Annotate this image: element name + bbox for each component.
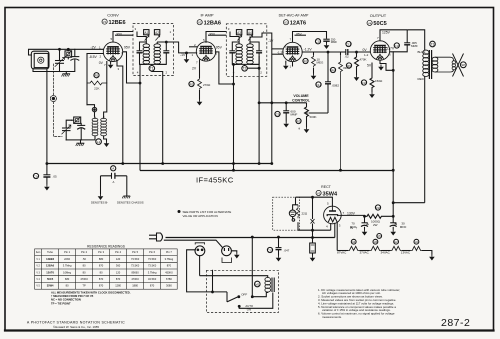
svg-text:13VAC: 13VAC	[401, 251, 411, 255]
svg-text:87VAC: 87VAC	[337, 251, 347, 255]
resistor R1 22K	[87, 81, 107, 85]
tube V2 12BA6 envelope	[196, 42, 215, 61]
svg-text:1: 1	[192, 53, 194, 57]
column lines	[41, 249, 43, 289]
svg-text:7: 7	[290, 38, 292, 42]
svg-text:1880: 1880	[132, 284, 138, 288]
svg-text:T2: T2	[243, 67, 247, 71]
IF label	[196, 176, 234, 185]
heater pins down	[330, 223, 332, 230]
grommet circle on feed wire	[87, 105, 95, 108]
svg-text:Pin 2: Pin 2	[81, 250, 87, 254]
AVC / B- bus	[47, 163, 272, 165]
svg-text:3V: 3V	[350, 226, 354, 230]
svg-text:Item: Item	[36, 251, 41, 254]
cord lower wire to interlock	[164, 240, 223, 247]
svg-text:73.5K0: 73.5K0	[148, 264, 157, 268]
svg-text:MMF: MMF	[411, 44, 418, 48]
svg-text:V1: V1	[103, 20, 107, 24]
svg-text:7: 7	[377, 36, 379, 40]
svg-text:73.5K0: 73.5K0	[148, 257, 157, 261]
svg-text:C10: C10	[315, 40, 321, 44]
tube V5 35W4 envelope	[324, 206, 342, 224]
svg-text:3: 3	[339, 224, 341, 228]
heater V1	[411, 246, 422, 250]
svg-text:H4: H4	[352, 240, 356, 244]
svg-text:3: 3	[118, 67, 120, 71]
row lines	[35, 255, 178, 257]
svg-text:10Meg: 10Meg	[63, 270, 71, 274]
switch SW1 arm	[227, 297, 238, 302]
clock dashed box	[206, 270, 278, 312]
svg-text:H1: H1	[415, 240, 419, 244]
resistor R9 470K	[355, 52, 359, 75]
svg-text:RECT: RECT	[321, 185, 332, 189]
svg-text:θ: θ	[299, 127, 301, 131]
svg-text:125V: 125V	[382, 31, 391, 35]
speaker cone	[453, 54, 464, 77]
svg-text:-1V: -1V	[268, 39, 274, 43]
svg-text:2W: 2W	[373, 223, 378, 227]
svg-text:ALL MEASUREMENTS TAKEN WITH CL: ALL MEASUREMENTS TAKEN WITH CLOCK DISCON…	[51, 290, 131, 294]
svg-text:2: 2	[194, 43, 196, 47]
clock coil top wire to socket	[200, 276, 268, 278]
svg-text:120: 120	[116, 257, 121, 261]
svg-text:RED: RED	[418, 77, 425, 81]
T2 dashed box	[226, 24, 266, 77]
svg-text:22K0: 22K0	[64, 257, 71, 261]
svg-text:C15: C15	[267, 248, 273, 252]
svg-text:MEG: MEG	[317, 61, 325, 65]
volume pot R3 500K	[305, 103, 309, 125]
svg-text:R7: R7	[304, 59, 308, 63]
svg-text:5: 5	[327, 202, 329, 206]
svg-text:R10: R10	[361, 81, 367, 85]
svg-text:MFD: MFD	[400, 225, 407, 229]
svg-text:B: B	[395, 222, 398, 226]
svg-text:CONV: CONV	[107, 13, 119, 18]
T2 primary top wire entering box	[230, 32, 239, 43]
svg-text:A: A	[112, 167, 114, 171]
svg-text:RESISTANCE READINGS: RESISTANCE READINGS	[87, 244, 125, 248]
svg-text:V5: V5	[317, 191, 321, 195]
capacitor C4 osc padder	[80, 123, 82, 125]
coupling capacitor C11	[346, 41, 351, 46]
svg-text:.047: .047	[284, 249, 290, 253]
INPUT SECTION	[29, 48, 110, 164]
svg-text:IF AMP: IF AMP	[200, 13, 213, 18]
svg-text:A1: A1	[144, 31, 148, 35]
label RECT for tube V5	[316, 185, 338, 197]
legend capacitor A	[111, 166, 116, 171]
label DET-AVC-AF AMP for tube V3	[279, 14, 309, 27]
svg-text:V3: V3	[284, 21, 288, 25]
PARTS NOTE	[178, 210, 232, 218]
speaker circle designator SP	[460, 62, 466, 68]
svg-text:5: 5	[111, 37, 113, 41]
svg-text:L2: L2	[97, 140, 101, 144]
svg-text:Pin 4: Pin 4	[115, 250, 121, 254]
svg-text:22K: 22K	[94, 87, 99, 91]
ground chassis below antenna caps	[62, 74, 70, 76]
svg-text:T3: T3	[431, 42, 435, 46]
svg-text:35W4: 35W4	[323, 191, 339, 197]
svg-text:870: 870	[99, 277, 104, 281]
socket wires into clock box	[187, 250, 227, 292]
variable capacitor C1A	[59, 49, 61, 60]
capacitor C10 plate bypass	[315, 39, 320, 44]
svg-text:73.5K0: 73.5K0	[131, 257, 140, 261]
heater hump below tube	[371, 63, 373, 77]
B- arrow below tube cathode	[378, 65, 384, 71]
trimmer A2	[154, 30, 159, 35]
svg-text:3080: 3080	[166, 284, 172, 288]
interlock male plug	[222, 246, 232, 256]
svg-text:500K: 500K	[310, 115, 317, 119]
svg-text:80: 80	[83, 264, 86, 268]
T2 bottom leads	[232, 63, 239, 170]
svg-text:M1: M1	[255, 282, 259, 286]
resistor R8 330K	[339, 55, 343, 170]
svg-text:7: 7	[196, 61, 198, 65]
wires from lamp box to AC line	[297, 222, 299, 230]
svg-text:TP = TIE POINT: TP = TIE POINT	[51, 302, 71, 306]
T2 secondary top wire to V3 grid	[250, 33, 284, 49]
svg-text:12BA6: 12BA6	[46, 264, 55, 268]
svg-text:80: 80	[100, 270, 103, 274]
socket-to-switch wire	[212, 270, 214, 292]
svg-text:Pin 7: Pin 7	[166, 250, 172, 254]
CLOCK SWITCH BOX	[200, 238, 279, 313]
capacitor C15 line bypass	[267, 247, 272, 252]
T3 core	[428, 50, 430, 79]
svg-text:3: 3	[135, 27, 137, 31]
fixed capacitor C2	[74, 49, 76, 56]
heater string end to ground	[422, 251, 432, 255]
svg-text:OFF: OFF	[241, 293, 247, 297]
PLUG AND INTERLOCK	[149, 233, 240, 293]
trimmer A1	[144, 30, 149, 35]
off contact wire to coil bottom	[252, 292, 267, 297]
node at tuning cap C1A	[59, 48, 61, 50]
surge resistor block M1	[310, 243, 316, 253]
svg-text:Tube: Tube	[47, 250, 53, 254]
heater string wire	[337, 250, 348, 252]
capacitor C12	[316, 82, 321, 87]
svg-text:12BA6: 12BA6	[204, 21, 221, 27]
svg-text:470K0: 470K0	[131, 277, 139, 281]
svg-text:7: 7	[104, 63, 106, 67]
auto contact wire	[239, 293, 273, 309]
POWER SECTION	[166, 196, 435, 261]
svg-text:3: 3	[228, 27, 230, 31]
svg-text:85V: 85V	[296, 32, 302, 36]
svg-text:V2: V2	[198, 21, 202, 25]
svg-text:5V: 5V	[367, 64, 372, 68]
svg-text:TP: TP	[82, 284, 86, 288]
AC line from plug	[166, 237, 335, 239]
heater V4	[348, 246, 359, 250]
svg-text:A: A	[366, 222, 369, 226]
svg-text:12AT6: 12AT6	[290, 21, 306, 27]
T3 circle designator	[430, 41, 436, 47]
svg-text:2: 2	[166, 71, 168, 75]
svg-text:.0082: .0082	[332, 84, 340, 88]
grid return wires	[87, 53, 103, 55]
svg-text:6780: 6780	[166, 277, 172, 281]
svg-text:MMF: MMF	[291, 113, 298, 117]
svg-text:V 5: V 5	[36, 286, 40, 288]
tube V1 12BE6 envelope	[103, 42, 122, 61]
svg-text:measurements.: measurements.	[322, 315, 342, 319]
electrolytic C16B 30MFD	[392, 216, 394, 222]
svg-text:R9: R9	[347, 64, 351, 68]
resistor 22 ohm parallel with lamp	[296, 205, 299, 218]
LABELS-TOP	[102, 13, 387, 198]
oscillator variable capacitor C1C	[63, 127, 71, 129]
svg-text:12BE6: 12BE6	[109, 20, 126, 26]
svg-text:.05: .05	[53, 175, 58, 179]
link to T3 bottom	[393, 202, 425, 204]
svg-text:360: 360	[116, 264, 121, 268]
FOOTER	[27, 321, 125, 329]
svg-text:A4: A4	[248, 31, 252, 35]
wires top	[259, 102, 306, 104]
svg-text:150Ω: 150Ω	[375, 79, 383, 83]
svg-text:DENOTES B-: DENOTES B-	[91, 201, 108, 205]
svg-text:95V: 95V	[210, 32, 216, 36]
RESISTANCE TABLE	[35, 244, 178, 289]
svg-text:450K0: 450K0	[165, 270, 173, 274]
trimmer A4	[247, 30, 252, 35]
svg-text:37VAC: 37VAC	[360, 251, 370, 255]
node dots on AVC bus	[122, 163, 124, 165]
svg-text:MMF: MMF	[331, 40, 338, 44]
svg-text:R8: R8	[331, 68, 335, 72]
svg-text:-8.5V: -8.5V	[89, 55, 98, 59]
svg-text:V 1: V 1	[36, 259, 40, 261]
svg-text:1-2: 1-2	[364, 53, 369, 57]
V2 surroundings	[180, 32, 234, 106]
svg-text:0V: 0V	[99, 61, 104, 65]
svg-text:.50: .50	[82, 257, 86, 261]
svg-text:C14: C14	[33, 174, 39, 178]
T2 circle designator	[242, 66, 248, 72]
svg-text:680: 680	[65, 277, 70, 281]
resistor R7 10 MEG	[312, 55, 316, 68]
capacitor C13 tone	[394, 43, 399, 48]
T1 dashed box	[133, 24, 174, 76]
svg-text:3.7Meg: 3.7Meg	[63, 264, 72, 268]
T1 secondary winding	[154, 44, 161, 64]
svg-text:12BE6: 12BE6	[46, 257, 54, 261]
switch feed from AC line	[251, 238, 253, 297]
V1 surroundings	[89, 32, 141, 164]
IF TRANSFORMER T2	[226, 24, 283, 171]
svg-text:3.7Meg: 3.7Meg	[165, 257, 174, 261]
svg-text:95V: 95V	[124, 46, 131, 50]
heater V3	[370, 246, 381, 250]
svg-text:Pin 5: Pin 5	[132, 250, 138, 254]
svg-text:2: 2	[100, 55, 102, 59]
T3 primary winding	[423, 50, 429, 76]
svg-text:H2: H2	[394, 240, 398, 244]
PAGE NUMBER	[441, 317, 470, 329]
V4 surroundings	[341, 30, 418, 98]
svg-text:870: 870	[116, 277, 121, 281]
svg-text:C5: C5	[378, 234, 382, 238]
voice coil	[452, 61, 455, 64]
T2 secondary winding	[247, 44, 254, 64]
tube V3 12AT6 envelope	[283, 42, 302, 61]
svg-text:†: †	[356, 226, 358, 230]
interlock to chassis ground	[231, 251, 236, 253]
svg-text:A2: A2	[155, 31, 159, 35]
svg-text:.02: .02	[345, 55, 350, 59]
svg-text:50C5: 50C5	[47, 277, 54, 281]
T2 primary cap	[232, 42, 239, 64]
svg-text:120: 120	[116, 270, 121, 274]
svg-text:870: 870	[99, 264, 104, 268]
svg-text:Pin 1: Pin 1	[64, 250, 70, 254]
svg-text:43.5K0: 43.5K0	[148, 277, 157, 281]
svg-text:1: 1	[290, 65, 292, 69]
screen wire right of V1	[123, 52, 140, 83]
gang dot symbol	[50, 96, 56, 102]
B+ vertical to screen/filter	[392, 70, 394, 216]
svg-text:34VAC: 34VAC	[381, 251, 391, 255]
svg-text:R1: R1	[95, 74, 99, 78]
svg-text:80: 80	[66, 284, 69, 288]
svg-text:1: 1	[170, 30, 172, 34]
svg-text:R11: R11	[375, 206, 381, 210]
svg-text:VALUE OR APPLICATION: VALUE OR APPLICATION	[183, 214, 218, 218]
svg-text:A: A	[113, 180, 115, 184]
bottom return wire	[66, 139, 80, 141]
svg-text:DET-AVC-AF AMP: DET-AVC-AF AMP	[279, 14, 309, 18]
svg-text:©Howard W. Sams & Co., Inc.: ©Howard W. Sams & Co., Inc. 1955	[53, 325, 99, 329]
svg-text:7: 7	[343, 211, 345, 215]
heater V2	[391, 246, 402, 250]
cathode wire to filter	[341, 214, 364, 217]
svg-text:-1V: -1V	[180, 53, 186, 57]
svg-text:† MEASURED FROM PIN 7 OF V5: † MEASURED FROM PIN 7 OF V5	[51, 294, 94, 298]
T1 secondary cap	[157, 42, 166, 64]
cathode B- arrow below V1	[110, 61, 112, 63]
legend B- arrow	[100, 176, 102, 194]
capacitor C14 on bus	[33, 173, 38, 178]
svg-text:CONTROL: CONTROL	[292, 99, 311, 103]
svg-text:V 2: V 2	[36, 266, 40, 268]
OUTPUT TRANSFORMER T3 and SPEAKER	[407, 30, 466, 203]
pilot lamp I1	[289, 210, 296, 217]
svg-text:R2: R2	[190, 82, 194, 86]
svg-text:DENOTES CHASSIS: DENOTES CHASSIS	[117, 201, 144, 205]
FOOTNOTES	[318, 288, 400, 319]
T1 bottom leads	[140, 63, 147, 170]
T3 primary bottom lead down	[424, 79, 426, 203]
svg-text:80: 80	[83, 270, 86, 274]
V3 surroundings	[268, 32, 350, 171]
border bottom heavy line	[5, 329, 494, 331]
svg-text:C13: C13	[394, 44, 400, 48]
plate wire V1 to T1	[113, 32, 133, 43]
svg-text:470K: 470K	[360, 58, 367, 62]
svg-text:2: 2	[260, 71, 262, 75]
T2 secondary cap	[250, 42, 259, 64]
svg-text:Pin 6: Pin 6	[149, 250, 155, 254]
T1 primary cap	[140, 42, 147, 64]
svg-text:T1: T1	[150, 67, 154, 71]
svg-text:12AT6: 12AT6	[46, 270, 54, 274]
label CONV for tube V1	[102, 13, 126, 27]
svg-text:870: 870	[99, 284, 104, 288]
svg-text:470K0: 470K0	[80, 277, 88, 281]
speaker voice coil wires	[435, 57, 454, 61]
svg-text:Pin 3: Pin 3	[98, 250, 104, 254]
svg-text:-1.2V: -1.2V	[304, 48, 313, 52]
VOLUME CONTROL section	[258, 94, 328, 133]
IF TRANSFORMER T1	[133, 24, 197, 171]
svg-text:R3: R3	[297, 119, 301, 123]
svg-text:SP: SP	[461, 63, 465, 67]
T1 secondary top wire to V2 grid	[157, 42, 197, 53]
electrolytic C16A 70MFD	[364, 216, 366, 222]
T1 primary winding	[143, 44, 150, 64]
svg-text:89060: 89060	[131, 270, 139, 274]
T3 secondary winding	[432, 57, 438, 72]
svg-text:4: 4	[137, 71, 139, 75]
svg-text:4: 4	[326, 225, 328, 229]
coil T-circle	[96, 139, 102, 145]
T1 primary top wire entering box	[137, 32, 146, 43]
capacitor C9	[275, 111, 280, 116]
plate wire V2 to T2	[206, 32, 226, 43]
svg-text:270Ω: 270Ω	[203, 83, 211, 87]
svg-text:0V: 0V	[363, 48, 368, 52]
svg-text:VOLUME: VOLUME	[293, 94, 309, 98]
bracket from V3 cathode down	[271, 49, 273, 164]
BUS LINES	[33, 49, 424, 216]
svg-text:870: 870	[150, 284, 155, 288]
table grid	[35, 249, 178, 289]
pilot lamp dashed box	[273, 197, 300, 230]
label OUTPUT for tube V4	[367, 13, 387, 27]
svg-text:870: 870	[167, 264, 172, 268]
svg-text:880: 880	[99, 257, 104, 261]
svg-text:V 3: V 3	[36, 272, 40, 274]
X symbol on lamp tap	[311, 219, 315, 224]
svg-text:IF=455KC: IF=455KC	[196, 176, 234, 185]
svg-text:C12: C12	[316, 83, 322, 87]
B- arrow below grid return	[184, 57, 190, 63]
plate wire V3 up	[293, 32, 327, 43]
svg-text:5: 5	[203, 38, 205, 42]
clock motor coil	[265, 278, 271, 293]
label IF AMP for tube V2	[197, 13, 221, 27]
wire loop to grid line	[29, 49, 104, 55]
svg-text:OUTPUT: OUTPUT	[370, 13, 387, 18]
svg-text:73.5K0: 73.5K0	[131, 264, 140, 268]
loop antenna L1	[31, 51, 49, 69]
oscillator trimmer C1D box	[72, 119, 74, 121]
clock socket female	[195, 246, 205, 256]
LEGEND	[91, 166, 144, 205]
legend chassis ground	[126, 176, 128, 196]
svg-text:6: 6	[389, 53, 391, 57]
heater pins down to bus	[117, 61, 123, 164]
dashed gang line	[52, 64, 54, 95]
